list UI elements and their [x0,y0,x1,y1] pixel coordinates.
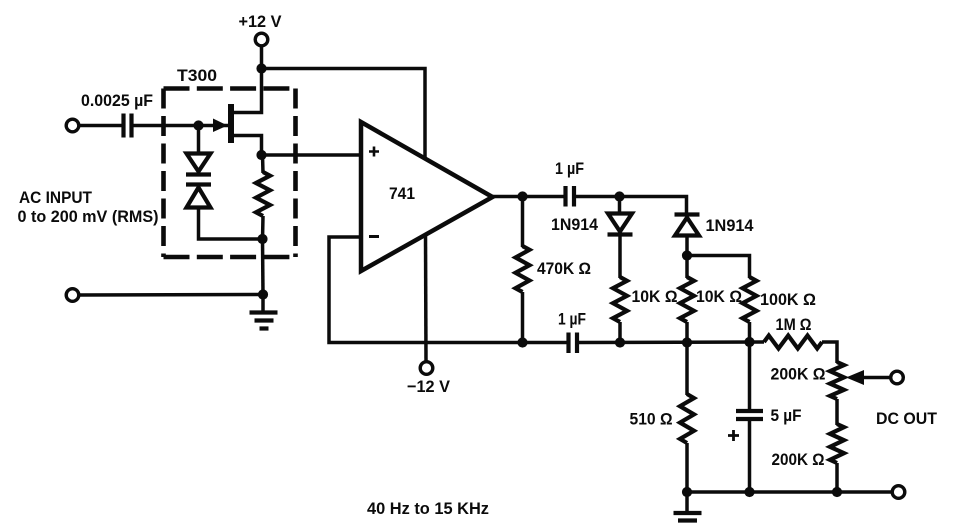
op-amp U1 741 [361,122,493,271]
transistor Q1 body bar [228,104,234,143]
wire R1 to box bottom node [261,216,265,240]
terminal DC OUT wiper [891,371,904,384]
pin plus [369,147,379,157]
terminal -12V [420,362,433,375]
node ground junction [258,289,268,299]
wire 1M to pot [822,342,837,363]
svg-text:1N914: 1N914 [706,216,755,235]
node 470K bottom [517,337,527,347]
resistor R 10K-1 [613,277,627,322]
wire 5uF bottom [748,421,752,493]
svg-text:5 µF: 5 µF [771,406,802,425]
svg-text:100K Ω: 100K Ω [760,290,816,309]
diode D1 (cathode down) [608,214,633,235]
wire gate to diode stack [197,126,201,155]
node 10K-1 bottom [615,337,625,347]
wire diode stack to box bottom node [199,208,263,240]
wire op-amp output [493,195,565,199]
node 10K-2 bottom [682,337,692,347]
node 5uF bottom [744,487,754,497]
svg-text:40 Hz to 15 KHz: 40 Hz to 15 KHz [367,499,489,518]
capacitor C4 5uF [736,411,763,419]
wire 470K top [521,197,525,248]
node gate [193,120,203,130]
wire C1 to gate [134,124,229,128]
wire input to C1 [79,124,122,128]
terminal DC OUT return [892,486,905,499]
ground G2 [674,492,702,523]
svg-text:0 to 200 mV (RMS): 0 to 200 mV (RMS) [18,207,159,226]
wire 100K to rail [748,322,752,342]
module T300 dashed box [164,89,296,258]
terminal AC input [66,119,79,132]
wire bottom rail [687,490,892,494]
resistor R 200K-2 [830,424,844,463]
wire drain feed [234,69,262,113]
svg-text:1N914: 1N914 [551,215,598,234]
diode D4 (lower, cathode up) [186,185,211,208]
ground G1 [250,295,278,329]
wire D2 node to 10K-2 [685,256,689,279]
svg-text:T300: T300 [177,66,217,85]
wire 200K-2 to bottom rail [835,463,839,492]
resistor R 1M (series) [764,336,822,349]
svg-text:AC INPUT: AC INPUT [19,188,93,207]
wiper arrow [846,370,891,385]
wire lower input to ground node [79,293,263,297]
wire Q1 source [234,136,262,157]
transistor Q1 gate arrow [213,119,228,133]
svg-text:510 Ω: 510 Ω [630,410,673,429]
wire 470K bottom [521,292,525,343]
terminal lower input [66,289,79,302]
wire 10K-1 to rail [618,322,622,343]
capacitor C3 1uF (feedback) [569,333,578,354]
node D1 top [614,191,624,201]
wire D2 to node [685,236,689,257]
wire D1 top [618,197,622,214]
svg-text:1 µF: 1 µF [558,310,586,329]
wire 10K-2 to rail [685,322,689,343]
wire box bottom to ground node [261,239,265,295]
resistor R 100K [743,277,757,322]
svg-text:10K Ω: 10K Ω [632,287,678,306]
wire op-amp V- pin [424,235,428,363]
svg-text:0.0025 µF: 0.0025 µF [81,91,153,110]
resistor R 470K [516,246,530,292]
resistor R1 (inside T300) [256,172,270,216]
resistor R 510 [680,394,694,443]
wire feedback rail right of C3 [579,340,764,344]
wire +12V rail to op-amp V+ [262,69,426,160]
svg-text:470K Ω: 470K Ω [537,259,591,278]
svg-text:1 µF: 1 µF [555,159,584,178]
terminal +12V [255,33,268,46]
wire 510 to bottom rail [685,443,689,492]
wire C2 to D2 [576,197,687,214]
wire pot to 200K-2 [835,399,839,425]
capacitor C1 0.0025uF [124,114,132,138]
node bottom rail left [682,487,692,497]
label plus polarity [728,430,739,441]
diode D3 (upper, cathode down) [186,154,211,175]
wire D2 node to 100K top [687,256,750,279]
node box bottom [257,234,267,244]
wire source to op-amp plus input [262,153,362,157]
svg-text:1M Ω: 1M Ω [776,315,812,334]
pin minus [369,235,379,238]
potentiometer R 200K [830,362,844,399]
wire D1 to R 10K-1 [618,235,622,279]
svg-text:200K Ω: 200K Ω [772,450,825,469]
node +12V rail tap [256,63,266,73]
wire +12V terminal to rail [260,46,264,70]
svg-text:200K Ω: 200K Ω [771,365,826,384]
svg-text:DC OUT: DC OUT [876,409,938,428]
diode D2 (cathode up) [675,215,700,236]
node D2 bottom [682,250,692,260]
capacitor C2 1uF (output) [566,186,575,207]
svg-text:10K Ω: 10K Ω [696,287,742,306]
svg-text:+12 V: +12 V [239,12,283,31]
wire 510 top [685,343,689,396]
node 200K-2 bottom [832,487,842,497]
wire feedback from minus input [329,237,567,343]
wire 5uF top [748,342,752,410]
resistor R 10K-2 [680,277,694,322]
node source [256,150,266,160]
node 100K bottom [744,337,754,347]
wire source node to R1 [261,155,265,173]
svg-text:−12 V: −12 V [407,377,451,396]
node output [517,191,527,201]
svg-text:741: 741 [389,185,415,203]
